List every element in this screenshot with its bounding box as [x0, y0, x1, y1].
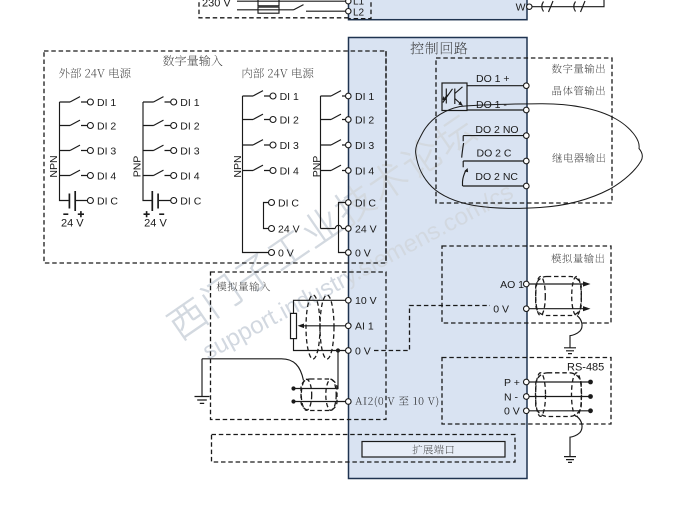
digital input dashed box 数字量输入: [44, 51, 386, 263]
svg-text:N -: N -: [504, 391, 519, 403]
svg-text:DI C: DI C: [355, 197, 376, 209]
fuse F2: [258, 7, 279, 13]
relay DO2 contact wires: [463, 136, 524, 186]
terminal AI2: [346, 399, 352, 405]
optocoupler U1 box: [442, 83, 467, 111]
switch blade: [331, 114, 341, 119]
terminal 24 V on control box: [346, 226, 352, 232]
terminal DI 1: [87, 99, 93, 105]
switch blade: [331, 91, 341, 96]
svg-text:DI C: DI C: [278, 197, 299, 209]
expansion port dashed box: [212, 435, 516, 463]
internal NPN digital input switches DI1-DI4: [243, 96, 271, 171]
NPN label (rotated): [48, 155, 60, 177]
internal PNP DIC-0V jumper: [339, 203, 346, 253]
switch blade: [331, 165, 341, 170]
analog output dashed box 模拟量输出: [442, 246, 611, 323]
wire W to motor (exits top): [532, 0, 604, 7]
svg-text:P +: P +: [504, 377, 520, 389]
wire L1 (top, cut): [237, 0, 346, 2]
potentiometer R1: [291, 313, 297, 338]
wire L2 with fuse and switch: [237, 10, 346, 11]
wire 0V with junction: [294, 339, 346, 351]
shield ellipses AI1 cable: [306, 295, 320, 359]
PNP label (rotated): [131, 156, 143, 178]
svg-text:0 V: 0 V: [355, 247, 371, 259]
svg-text:DI 2: DI 2: [355, 114, 374, 126]
ground symbol (AO): [564, 348, 576, 354]
svg-text:AI 1: AI 1: [355, 321, 374, 333]
internal PNP digital input switches DI1-DI4: [321, 96, 346, 229]
terminal DO 1 +: [524, 83, 530, 89]
freehand annotation ellipse around relay output: [416, 104, 643, 209]
svg-text:PNP: PNP: [131, 156, 143, 178]
terminal DI 2: [171, 123, 177, 129]
230V supply dashed box: [199, 0, 371, 19]
ground wire from 0V junction: [202, 351, 338, 397]
external NPN 24V battery: [60, 176, 88, 201]
terminal DI 4: [270, 168, 276, 174]
svg-text:DI C: DI C: [97, 195, 118, 207]
svg-text:DI 2: DI 2: [180, 120, 199, 132]
svg-text:24 V: 24 V: [144, 218, 167, 230]
terminal AO 1: [524, 281, 530, 287]
terminal DI 4 on control box: [346, 168, 352, 174]
terminal N - (RS-485): [524, 394, 530, 400]
terminal DO 1 -: [524, 107, 530, 113]
svg-text:PNP: PNP: [311, 156, 323, 178]
RS-485 wires with dots: [529, 382, 589, 411]
AI2 wires with connection dots: [294, 401, 346, 403]
svg-text:DI 3: DI 3: [180, 145, 199, 157]
switch blade: [331, 140, 341, 145]
optocoupler LED: [443, 89, 453, 104]
label 模拟量输入: [217, 282, 271, 292]
terminal DO 2 NC: [524, 183, 530, 189]
terminal P + (RS-485): [524, 379, 530, 385]
svg-text:L2: L2: [353, 8, 365, 19]
AO shield ground tail: [570, 316, 582, 348]
fuse F1 (cut): [258, 0, 279, 6]
PNP label internal (rotated): [311, 156, 323, 178]
AI2 shield: [301, 379, 337, 411]
svg-text:0 V: 0 V: [355, 345, 371, 357]
terminal 0 V (AO): [524, 306, 530, 312]
switch blade: [253, 140, 263, 145]
svg-text:DO 2 NC: DO 2 NC: [475, 171, 518, 183]
label 外部 24V 电源: [59, 68, 131, 79]
connector marks on motor wire: [542, 1, 585, 12]
switch blade: [70, 120, 80, 125]
analog input dashed box 模拟量输入: [211, 272, 387, 420]
switch S1 blade: [294, 5, 304, 10]
ground symbol (analog input): [195, 397, 210, 404]
terminal 24 V (internal NPN): [269, 226, 275, 232]
switch blade: [253, 165, 263, 170]
AO shield: [536, 277, 582, 316]
battery polarity labels: [63, 213, 68, 215]
terminal DI 4: [87, 173, 93, 179]
switch blade: [70, 97, 80, 102]
RS-485 dashed box: [442, 358, 611, 425]
terminal DI C on control box: [346, 200, 352, 206]
svg-text:DI 2: DI 2: [97, 120, 116, 132]
svg-text:DI 3: DI 3: [280, 140, 299, 152]
terminal DO 2 NO: [524, 133, 530, 139]
svg-text:DI 2: DI 2: [280, 114, 299, 126]
terminal DO 2 C: [524, 158, 530, 164]
ground symbol (RS-485): [564, 457, 576, 463]
svg-text:DI 4: DI 4: [280, 165, 299, 177]
internal NPN DIC-24V jumper: [264, 203, 269, 229]
relay changeover contact: [462, 136, 466, 186]
wire DO1+: [467, 85, 524, 87]
switch blade: [253, 114, 263, 119]
wiper wire AI1 with arrow: [303, 325, 346, 327]
svg-text:DI 4: DI 4: [180, 170, 199, 182]
power circuit box border: [349, 0, 528, 20]
label 数字量输入: [163, 55, 223, 66]
svg-text:0 V: 0 V: [493, 304, 509, 316]
terminal DI 4: [171, 173, 177, 179]
svg-text:DI 1: DI 1: [355, 91, 374, 103]
control circuit box border 控制回路: [349, 38, 528, 479]
watermark line 2: support.industry.siemens.com/cs: [198, 178, 518, 365]
svg-text:24 V: 24 V: [278, 223, 300, 235]
svg-text:DI 1: DI 1: [97, 97, 116, 109]
digital output dashed box: [436, 58, 612, 203]
terminal DI C (external NPN): [87, 198, 93, 204]
external PNP 24V battery: [143, 176, 171, 201]
svg-text:DI 1: DI 1: [180, 97, 199, 109]
svg-text:DO 2 C: DO 2 C: [477, 147, 512, 159]
svg-text:DO 2 NO: DO 2 NO: [475, 124, 518, 136]
expansion port rect 扩展端口: [362, 442, 505, 458]
label AI2(0 V 至 10 V): [355, 396, 438, 407]
terminal DI 3: [87, 148, 93, 154]
terminal DI 3: [171, 148, 177, 154]
switch blade: [154, 97, 164, 102]
switch blade: [154, 170, 164, 175]
switch blade: [70, 170, 80, 175]
wire 10V: [294, 300, 346, 313]
svg-text:W: W: [516, 1, 526, 13]
optocoupler phototransistor: [455, 87, 463, 106]
svg-text:DO 1 +: DO 1 +: [476, 73, 510, 85]
terminal DI 2: [87, 123, 93, 129]
svg-text:0 V: 0 V: [504, 406, 520, 418]
svg-text:10 V: 10 V: [355, 295, 377, 307]
label 继电器输出: [552, 153, 605, 163]
svg-text:DI 4: DI 4: [355, 165, 374, 177]
terminal AI 1: [346, 323, 352, 329]
svg-text:DI 4: DI 4: [97, 170, 116, 182]
svg-text:L1: L1: [353, 0, 365, 8]
svg-text:DI 3: DI 3: [97, 145, 116, 157]
NPN label internal (rotated): [232, 155, 244, 177]
svg-text:0 V: 0 V: [278, 247, 294, 259]
control circuit box fill: [349, 38, 528, 479]
terminal 0 V (internal NPN): [269, 250, 275, 256]
terminal 10 V: [346, 298, 352, 304]
terminal L1: [346, 0, 351, 4]
terminal 0 V (analog): [346, 348, 352, 354]
watermark line 1: 西门子工业技术论坛 (hollow gray, rotated): [164, 111, 478, 342]
RS-485 shield ground tail: [570, 417, 582, 457]
svg-text:NPN: NPN: [48, 155, 60, 177]
svg-text:DI 1: DI 1: [280, 91, 299, 103]
DI terminal dashed box right edge: [385, 51, 387, 263]
label 模拟量输出: [551, 253, 604, 263]
switch blade: [70, 145, 80, 150]
internal NPN bus to 0V: [243, 171, 269, 253]
terminal DI 1: [171, 99, 177, 105]
switch blade: [253, 91, 263, 96]
wire DO1-: [467, 109, 524, 111]
external PNP digital input switches DI1-DI4: [143, 102, 171, 176]
terminal DI 1: [270, 93, 276, 99]
label 数字量输出: [552, 64, 605, 74]
svg-text:24 V: 24 V: [61, 218, 84, 230]
terminal 0 V on control box: [346, 250, 352, 256]
title 控制回路: [411, 42, 468, 55]
svg-text:RS-485: RS-485: [567, 362, 604, 374]
dashed 0V link from AI to AO: [374, 306, 490, 351]
terminal DI 3 on control box: [346, 142, 352, 148]
AO wires with arrows: [529, 284, 585, 309]
svg-text:24 V: 24 V: [355, 223, 377, 235]
external NPN digital input switches DI1-DI4: [60, 102, 88, 176]
svg-text:DI 3: DI 3: [355, 140, 374, 152]
RS-485 shield: [536, 373, 582, 417]
terminal DI 2: [270, 117, 276, 123]
label 内部 24V 电源: [243, 68, 314, 79]
junction node: [336, 348, 340, 352]
svg-text:230 V: 230 V: [202, 0, 231, 10]
switch blade: [154, 145, 164, 150]
power circuit box fill: [349, 0, 528, 20]
label 晶体管输出: [553, 86, 605, 96]
switch blade: [154, 120, 164, 125]
terminal DI 2 on control box: [346, 117, 352, 123]
terminal DI 3: [270, 142, 276, 148]
svg-text:AO 1: AO 1: [500, 279, 524, 291]
label 扩展端口: [413, 445, 454, 455]
svg-text:DI C: DI C: [180, 195, 201, 207]
internal PNP bus to 24V terminal with hop: [321, 225, 346, 228]
terminal DI C (external PNP): [171, 198, 177, 204]
terminal DI 1 on control box: [346, 93, 352, 99]
terminal L2: [346, 9, 351, 14]
terminal 0 V (RS-485): [524, 408, 530, 414]
terminal DI C (internal NPN): [269, 200, 275, 206]
